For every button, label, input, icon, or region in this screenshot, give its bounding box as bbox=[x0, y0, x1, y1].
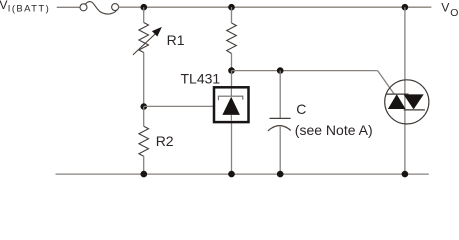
node junction TL431 anode bbox=[228, 171, 235, 178]
wire capacitor bottom lead bbox=[279, 127, 281, 174]
node capacitor junction bbox=[277, 67, 284, 74]
node divider junction R1/R2/ref bbox=[141, 103, 148, 110]
wire middle resistor top lead bbox=[231, 7, 233, 23]
svg-text:O: O bbox=[450, 7, 458, 19]
wire TL431 cathode lead bbox=[231, 71, 233, 87]
svg-text:R1: R1 bbox=[167, 32, 185, 48]
wire divider node to R2 bbox=[143, 107, 145, 127]
node VI(BATT) label bbox=[0, 0, 50, 15]
node junction thyristor bottom bbox=[402, 171, 409, 178]
wire reference to TL431 bbox=[144, 105, 213, 107]
svg-text:(see Note A): (see Note A) bbox=[295, 122, 373, 138]
wire thyristor vertical through bbox=[404, 7, 406, 174]
node junction top of middle resistor bbox=[228, 4, 235, 11]
wire top rail bbox=[119, 6, 432, 8]
svg-text:TL431: TL431 bbox=[181, 70, 221, 86]
wire cathode node to gate bend bbox=[232, 70, 378, 72]
wire capacitor top lead bbox=[279, 71, 281, 119]
fuse F1 bbox=[80, 2, 119, 14]
wire input to fuse bbox=[57, 6, 80, 8]
wire R1 top lead bbox=[143, 7, 145, 22]
svg-text:R2: R2 bbox=[156, 133, 174, 149]
node junction R2 bottom bbox=[141, 171, 148, 178]
capacitor C bbox=[268, 101, 373, 138]
svg-text:C: C bbox=[296, 101, 306, 117]
wire R1 bottom to divider node bbox=[143, 53, 145, 107]
node junction VO drop bbox=[402, 4, 409, 11]
node cathode junction bbox=[228, 67, 235, 74]
resistor R2 bbox=[139, 126, 174, 156]
wire resistor to cathode node bbox=[231, 54, 233, 71]
op-amp U1 TL431 shunt regulator bbox=[181, 70, 249, 122]
node junction capacitor bottom bbox=[277, 171, 284, 178]
wire R2 bottom lead bbox=[143, 156, 145, 174]
wire gate diagonal bbox=[378, 71, 395, 95]
node junction top of R1 bbox=[141, 4, 148, 11]
resistor upper divider (unlabeled) bbox=[227, 23, 237, 54]
svg-text:I(BATT): I(BATT) bbox=[8, 4, 50, 15]
svg-text:V: V bbox=[441, 1, 450, 15]
wire bottom rail bbox=[56, 173, 429, 175]
transistor Q1 triac crowbar bbox=[385, 80, 429, 124]
resistor R1 (variable) bbox=[133, 23, 185, 55]
node VO label bbox=[441, 1, 458, 19]
wire TL431 anode lead bbox=[231, 122, 233, 174]
